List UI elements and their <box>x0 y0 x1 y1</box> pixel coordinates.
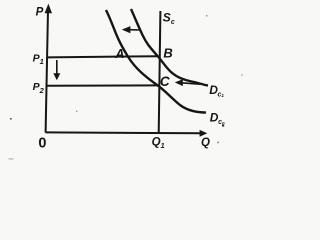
svg-text:B: B <box>163 46 172 61</box>
demand curve Dc0 (through A and C) <box>106 10 206 113</box>
y-axis arrowhead <box>45 4 52 14</box>
scan speck near top right <box>206 15 208 17</box>
svg-text:P: P <box>36 7 44 19</box>
x-axis arrowhead <box>200 130 208 137</box>
shift arrow (top, pointing left between curves) <box>122 26 141 33</box>
svg-text:C: C <box>160 74 170 89</box>
scan speck bottom-left smudge <box>9 158 14 160</box>
supply curve Sc (vertical line) <box>159 11 161 134</box>
svg-text:Q: Q <box>201 137 210 149</box>
scan speck above Q label <box>222 125 224 127</box>
price line P2 <box>47 84 158 86</box>
scan speck inside rectangle <box>76 111 77 112</box>
scan speck left margin <box>10 118 12 120</box>
scan speck right <box>241 74 243 76</box>
price line P1 <box>47 56 158 57</box>
x-axis (quantity axis) <box>46 131 201 134</box>
svg-text:A: A <box>114 47 124 61</box>
y-axis (price axis) <box>46 10 48 133</box>
demand curve Dc1 (through B) <box>131 9 208 86</box>
price fall arrow (down, between P1 and P2) <box>53 60 60 80</box>
scan speck right of Q1 <box>217 142 219 144</box>
svg-text:0: 0 <box>38 135 46 151</box>
arrow pointing left at C <box>175 79 200 86</box>
